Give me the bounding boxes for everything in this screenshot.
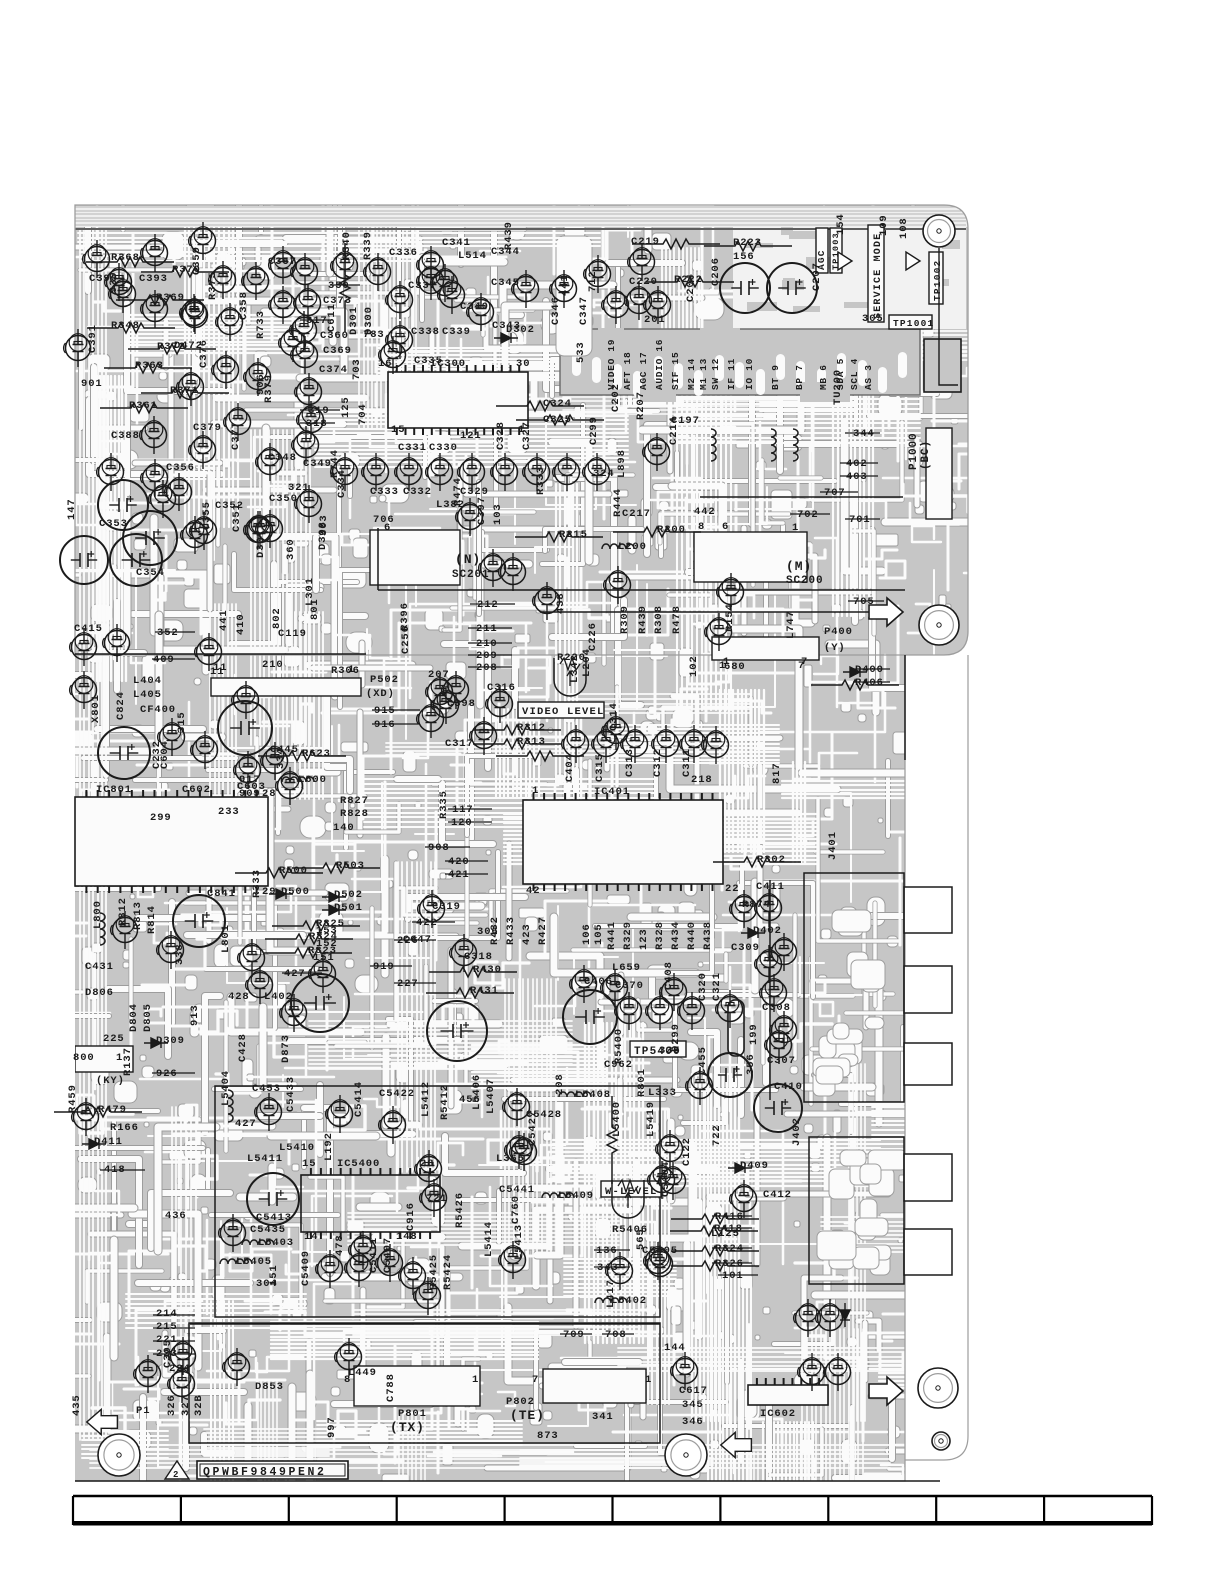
svg-text:J401: J401 — [827, 831, 839, 860]
svg-text:C351: C351 — [231, 503, 243, 532]
svg-text:C315: C315 — [594, 753, 606, 782]
svg-text:L342: L342 — [569, 654, 581, 683]
svg-text:908: 908 — [428, 842, 450, 854]
svg-text:C331: C331 — [398, 442, 427, 454]
svg-text:C335: C335 — [414, 355, 443, 367]
svg-text:C788: C788 — [385, 1373, 397, 1402]
svg-text:L747: L747 — [785, 610, 797, 639]
svg-text:TP1001: TP1001 — [893, 318, 934, 329]
svg-text:SDA 5: SDA 5 — [835, 358, 846, 390]
svg-text:C311: C311 — [681, 748, 693, 777]
svg-text:346: 346 — [682, 1416, 704, 1428]
svg-text:R333: R333 — [535, 466, 547, 495]
svg-text:L5419: L5419 — [645, 1101, 657, 1137]
svg-text:324: 324 — [593, 468, 615, 480]
svg-text:R733: R733 — [255, 310, 267, 339]
svg-text:C334: C334 — [336, 469, 348, 498]
svg-text:212: 212 — [477, 599, 499, 611]
svg-text:344: 344 — [853, 428, 875, 440]
svg-text:R308: R308 — [653, 605, 665, 634]
svg-text:C408: C408 — [663, 961, 675, 990]
svg-text:1: 1 — [645, 1374, 652, 1386]
svg-text:D301: D301 — [348, 306, 360, 335]
svg-text:R369: R369 — [156, 292, 185, 304]
svg-text:C841: C841 — [207, 888, 236, 900]
svg-text:P1: P1 — [136, 1405, 150, 1417]
svg-text:C391: C391 — [87, 324, 99, 353]
svg-text:D307: D307 — [255, 529, 267, 558]
svg-text:R439: R439 — [637, 605, 649, 634]
svg-text:R207: R207 — [635, 391, 647, 420]
svg-text:R5400: R5400 — [613, 1028, 625, 1064]
svg-text:410: 410 — [235, 613, 247, 635]
svg-text:721: 721 — [426, 1193, 448, 1205]
svg-text:QPWBF9849PEN2: QPWBF9849PEN2 — [203, 1466, 327, 1479]
svg-text:C339: C339 — [442, 326, 471, 338]
svg-text:D501: D501 — [334, 902, 363, 914]
svg-text:117: 117 — [452, 804, 474, 816]
svg-text:C5409: C5409 — [300, 1250, 312, 1286]
svg-text:C410: C410 — [774, 1081, 803, 1093]
svg-text:1: 1 — [532, 785, 539, 797]
svg-text:D309: D309 — [156, 1035, 185, 1047]
svg-text:C204: C204 — [685, 273, 697, 302]
svg-text:C338: C338 — [411, 326, 440, 338]
svg-text:R432: R432 — [489, 916, 501, 945]
svg-text:136: 136 — [596, 1245, 618, 1257]
svg-text:435: 435 — [71, 1394, 83, 1416]
svg-text:802: 802 — [271, 607, 283, 629]
svg-text:C336: C336 — [389, 247, 418, 259]
svg-text:C604: C604 — [159, 740, 171, 769]
svg-text:C5405: C5405 — [642, 1245, 678, 1257]
svg-text:R459: R459 — [67, 1084, 79, 1113]
svg-text:C415: C415 — [74, 623, 103, 635]
svg-text:C760: C760 — [510, 1195, 522, 1224]
svg-text:VIDEO 19: VIDEO 19 — [606, 339, 617, 390]
svg-text:R329: R329 — [622, 921, 634, 950]
svg-text:L5405: L5405 — [236, 1256, 272, 1268]
svg-text:L5404: L5404 — [220, 1070, 232, 1106]
svg-text:11: 11 — [213, 662, 227, 674]
svg-text:C5422: C5422 — [379, 1088, 415, 1100]
svg-text:M1 13: M1 13 — [698, 358, 709, 390]
svg-text:103: 103 — [492, 503, 504, 525]
svg-text:1: 1 — [792, 522, 799, 534]
svg-text:R440: R440 — [686, 921, 698, 950]
svg-text:210: 210 — [476, 638, 498, 650]
svg-text:C328: C328 — [495, 421, 507, 450]
svg-text:C359: C359 — [191, 246, 203, 275]
svg-text:334: 334 — [275, 747, 287, 769]
svg-text:915: 915 — [374, 705, 396, 717]
svg-text:P802: P802 — [506, 1396, 535, 1408]
svg-text:317: 317 — [306, 315, 328, 327]
svg-text:L449: L449 — [348, 1367, 377, 1379]
svg-text:X801: X801 — [90, 694, 102, 723]
svg-text:C397: C397 — [476, 496, 488, 525]
svg-text:C320: C320 — [697, 972, 709, 1001]
svg-text:R379: R379 — [263, 374, 275, 403]
svg-text:873: 873 — [537, 1430, 559, 1442]
svg-text:707: 707 — [824, 487, 846, 499]
svg-text:L800: L800 — [92, 900, 104, 929]
svg-text:MB 6: MB 6 — [818, 364, 829, 390]
svg-text:211: 211 — [476, 623, 498, 635]
svg-text:SIF 15: SIF 15 — [670, 352, 681, 390]
svg-text:R813: R813 — [132, 901, 144, 930]
svg-text:IC401: IC401 — [594, 786, 630, 798]
svg-text:C404: C404 — [564, 753, 576, 782]
svg-text:L5409: L5409 — [558, 1190, 594, 1202]
svg-text:C206: C206 — [710, 257, 722, 286]
svg-text:428: 428 — [228, 991, 250, 1003]
svg-text:926: 926 — [156, 1068, 178, 1080]
svg-text:R828: R828 — [340, 808, 369, 820]
svg-text:D400: D400 — [855, 664, 884, 676]
svg-text:42: 42 — [526, 885, 540, 897]
svg-text:442: 442 — [694, 506, 716, 518]
svg-text:22: 22 — [725, 883, 739, 895]
svg-text:C308: C308 — [762, 1002, 791, 1014]
svg-text:C337: C337 — [408, 280, 437, 292]
svg-text:C313: C313 — [624, 748, 636, 777]
svg-text:360: 360 — [285, 538, 297, 560]
svg-text:L404: L404 — [133, 675, 162, 687]
svg-text:(Y): (Y) — [824, 642, 846, 654]
svg-text:R339: R339 — [362, 231, 374, 260]
svg-text:356: 356 — [745, 1053, 757, 1075]
svg-text:C220: C220 — [629, 276, 658, 288]
svg-text:565: 565 — [635, 1228, 647, 1250]
svg-text:28: 28 — [262, 788, 276, 800]
svg-text:402: 402 — [846, 458, 868, 470]
svg-text:D853: D853 — [255, 1381, 284, 1393]
svg-text:423: 423 — [521, 923, 533, 945]
svg-text:(TE): (TE) — [510, 1408, 545, 1423]
svg-text:L5412: L5412 — [420, 1081, 432, 1117]
svg-text:R814: R814 — [146, 905, 158, 934]
svg-text:TP1002: TP1002 — [932, 260, 943, 301]
svg-text:D299: D299 — [670, 1023, 682, 1052]
svg-text:(XD): (XD) — [366, 688, 395, 700]
svg-text:327: 327 — [180, 1394, 192, 1416]
svg-text:C309: C309 — [731, 942, 760, 954]
svg-text:C611: C611 — [326, 303, 338, 332]
svg-text:C369: C369 — [323, 345, 352, 357]
svg-text:P1000: P1000 — [908, 432, 920, 470]
svg-text:D806: D806 — [85, 987, 114, 999]
svg-text:R441: R441 — [606, 921, 618, 950]
svg-text:305: 305 — [862, 313, 884, 325]
svg-text:C357: C357 — [268, 256, 297, 268]
svg-text:R478: R478 — [671, 605, 683, 634]
svg-text:R215: R215 — [559, 529, 588, 541]
svg-text:345: 345 — [682, 1399, 704, 1411]
svg-text:SCL 4: SCL 4 — [849, 358, 860, 390]
svg-text:R5425: R5425 — [428, 1254, 440, 1290]
svg-text:L192: L192 — [323, 1132, 335, 1161]
svg-text:148: 148 — [396, 1231, 418, 1243]
svg-text:478: 478 — [334, 1234, 346, 1256]
svg-text:C333: C333 — [370, 486, 399, 498]
svg-text:C307: C307 — [767, 1055, 796, 1067]
svg-text:AFT 18: AFT 18 — [622, 352, 633, 390]
svg-text:R302: R302 — [757, 854, 786, 866]
svg-text:L898: L898 — [616, 449, 628, 478]
svg-text:218: 218 — [691, 774, 713, 786]
svg-text:L333: L333 — [648, 1087, 677, 1099]
svg-text:422: 422 — [416, 917, 438, 929]
svg-text:C370: C370 — [615, 980, 644, 992]
svg-text:299: 299 — [150, 812, 172, 824]
svg-text:C916: C916 — [405, 1202, 417, 1231]
svg-text:C348: C348 — [268, 452, 297, 464]
svg-text:C299: C299 — [588, 416, 600, 445]
svg-text:338: 338 — [174, 943, 186, 965]
svg-text:R438: R438 — [702, 921, 714, 950]
svg-text:R434: R434 — [670, 921, 682, 950]
svg-text:P801: P801 — [398, 1408, 427, 1420]
svg-text:C319: C319 — [432, 901, 461, 913]
svg-text:R348: R348 — [111, 320, 140, 332]
svg-text:C428: C428 — [237, 1033, 249, 1062]
svg-text:C379: C379 — [193, 422, 222, 434]
svg-text:326: 326 — [166, 1394, 178, 1416]
svg-text:L5408: L5408 — [575, 1089, 611, 1101]
svg-text:144: 144 — [664, 1342, 686, 1354]
svg-text:(N): (N) — [455, 552, 481, 567]
svg-text:427: 427 — [284, 968, 306, 980]
svg-text:L301: L301 — [304, 577, 316, 606]
svg-text:D804: D804 — [128, 1003, 140, 1032]
svg-text:C327: C327 — [521, 421, 533, 450]
svg-text:704: 704 — [357, 403, 369, 425]
svg-text:123: 123 — [638, 928, 650, 950]
svg-text:441: 441 — [218, 609, 230, 631]
svg-text:120: 120 — [451, 817, 473, 829]
svg-text:352: 352 — [157, 627, 179, 639]
svg-text:D873: D873 — [280, 1034, 292, 1063]
svg-text:916: 916 — [374, 719, 396, 731]
svg-text:319: 319 — [308, 405, 330, 417]
svg-text:R333: R333 — [251, 869, 263, 898]
svg-text:C347: C347 — [578, 296, 590, 325]
svg-text:SW 12: SW 12 — [710, 358, 721, 390]
svg-text:125: 125 — [340, 396, 352, 418]
svg-text:C341: C341 — [442, 237, 471, 249]
svg-text:R368: R368 — [111, 252, 140, 264]
svg-text:W-LEVEL: W-LEVEL — [605, 1186, 658, 1198]
svg-text:421: 421 — [448, 869, 470, 881]
svg-text:BT 9: BT 9 — [770, 364, 781, 390]
svg-text:C5411: C5411 — [368, 1237, 380, 1273]
svg-text:AS 3: AS 3 — [863, 364, 874, 390]
svg-text:102: 102 — [688, 655, 700, 677]
svg-text:R137: R137 — [122, 1047, 134, 1076]
svg-text:L204: L204 — [581, 648, 593, 677]
svg-text:7: 7 — [532, 1374, 539, 1386]
svg-text:C316: C316 — [487, 682, 516, 694]
svg-text:156: 156 — [733, 251, 755, 263]
svg-text:15: 15 — [302, 1158, 316, 1170]
svg-text:703: 703 — [351, 358, 363, 380]
svg-text:C406: C406 — [584, 976, 613, 988]
svg-text:P400: P400 — [824, 626, 853, 638]
svg-text:BP 7: BP 7 — [794, 364, 805, 390]
svg-text:L200: L200 — [618, 541, 647, 553]
svg-text:109: 109 — [878, 214, 890, 236]
svg-text:151: 151 — [313, 952, 335, 964]
svg-text:C5414: C5414 — [353, 1081, 365, 1117]
svg-text:R396: R396 — [399, 602, 411, 631]
svg-text:709: 709 — [563, 1329, 585, 1341]
svg-text:R430: R430 — [473, 964, 502, 976]
svg-text:919: 919 — [373, 961, 395, 973]
svg-text:C412: C412 — [763, 1189, 792, 1201]
svg-text:C388: C388 — [111, 430, 140, 442]
svg-text:C431: C431 — [85, 961, 114, 973]
svg-text:VIDEO LEVEL: VIDEO LEVEL — [522, 706, 605, 718]
svg-text:IC5400: IC5400 — [337, 1158, 380, 1170]
svg-text:L801: L801 — [220, 924, 232, 953]
svg-text:L125: L125 — [711, 1228, 740, 1240]
svg-text:P502: P502 — [370, 674, 399, 686]
svg-text:L5413: L5413 — [513, 1224, 525, 1260]
svg-text:R623: R623 — [302, 748, 331, 760]
svg-text:C332: C332 — [403, 486, 432, 498]
svg-text:R361: R361 — [129, 400, 158, 412]
svg-text:C5404: C5404 — [660, 1161, 672, 1197]
svg-text:C455: C455 — [697, 1046, 709, 1075]
svg-text:C314: C314 — [608, 702, 620, 731]
svg-text:D402: D402 — [753, 925, 782, 937]
svg-text:D500: D500 — [281, 886, 310, 898]
svg-text:208: 208 — [554, 1073, 566, 1095]
svg-text:R827: R827 — [340, 795, 369, 807]
svg-text:D409: D409 — [740, 1160, 769, 1172]
svg-text:215: 215 — [156, 1321, 178, 1333]
svg-text:C5441: C5441 — [499, 1184, 535, 1196]
svg-text:315: 315 — [176, 711, 188, 733]
svg-text:C345: C345 — [491, 277, 520, 289]
svg-text:R371: R371 — [170, 385, 199, 397]
svg-text:C330: C330 — [429, 442, 458, 454]
svg-text:D302: D302 — [506, 324, 535, 336]
svg-text:441: 441 — [559, 274, 571, 296]
svg-text:IO 10: IO 10 — [744, 358, 755, 390]
svg-text:L402: L402 — [264, 991, 293, 1003]
svg-text:R328: R328 — [654, 921, 666, 950]
svg-text:32B: 32B — [193, 1394, 205, 1416]
svg-text:722: 722 — [711, 1124, 723, 1146]
svg-text:L5407: L5407 — [485, 1078, 497, 1114]
svg-text:C226: C226 — [587, 622, 599, 651]
svg-text:420: 420 — [448, 856, 470, 868]
svg-text:C122: C122 — [681, 1137, 693, 1166]
svg-text:227: 227 — [397, 978, 419, 990]
svg-text:L5403: L5403 — [258, 1237, 294, 1249]
svg-text:R363: R363 — [135, 360, 164, 372]
svg-text:147: 147 — [66, 498, 78, 520]
svg-text:C617: C617 — [679, 1385, 708, 1397]
svg-text:R312: R312 — [517, 722, 546, 734]
svg-text:427: 427 — [235, 1118, 257, 1130]
svg-text:R444: R444 — [612, 488, 624, 517]
svg-text:201: 201 — [644, 314, 666, 326]
svg-text:C355: C355 — [201, 501, 213, 530]
svg-text:AUDIO 16: AUDIO 16 — [654, 339, 665, 390]
svg-text:R433: R433 — [505, 916, 517, 945]
svg-text:C824: C824 — [115, 691, 127, 720]
svg-text:C5407: C5407 — [382, 1237, 394, 1273]
svg-text:C346: C346 — [550, 296, 562, 325]
svg-text:R200: R200 — [657, 524, 686, 536]
svg-text:R306: R306 — [331, 665, 360, 677]
svg-text:C207: C207 — [811, 262, 823, 291]
svg-text:680: 680 — [724, 661, 746, 673]
svg-text:800: 800 — [73, 1052, 95, 1064]
svg-text:C453: C453 — [252, 1083, 281, 1095]
svg-text:R801: R801 — [636, 1068, 648, 1097]
svg-text:R431: R431 — [470, 985, 499, 997]
svg-text:C325: C325 — [543, 414, 572, 426]
svg-text:C219: C219 — [631, 236, 660, 248]
svg-text:AGC 17: AGC 17 — [638, 352, 649, 390]
svg-text:29: 29 — [262, 886, 276, 898]
svg-text:R5426: R5426 — [454, 1192, 466, 1228]
svg-text:705: 705 — [853, 596, 875, 608]
svg-text:D502: D502 — [334, 889, 363, 901]
svg-text:15: 15 — [391, 424, 405, 436]
svg-text:350: 350 — [328, 280, 350, 292]
svg-text:343: 343 — [597, 1262, 619, 1274]
svg-text:C356: C356 — [166, 462, 195, 474]
svg-text:IC602: IC602 — [760, 1408, 796, 1420]
svg-text:L5411: L5411 — [247, 1153, 283, 1165]
svg-text:R479: R479 — [98, 1104, 127, 1116]
svg-text:(M): (M) — [786, 559, 812, 574]
svg-text:C374: C374 — [319, 364, 348, 376]
svg-text:C321: C321 — [711, 972, 723, 1001]
svg-text:SC200: SC200 — [786, 575, 824, 587]
svg-text:C217: C217 — [622, 508, 651, 520]
svg-text:C393: C393 — [139, 273, 168, 285]
svg-text:R812: R812 — [117, 897, 129, 926]
svg-text:L5410: L5410 — [279, 1142, 315, 1154]
svg-text:C214: C214 — [668, 416, 680, 445]
svg-text:C358: C358 — [238, 291, 250, 320]
svg-text:121: 121 — [460, 430, 482, 442]
svg-text:L659: L659 — [612, 962, 641, 974]
svg-text:208: 208 — [476, 662, 498, 674]
svg-text:L514: L514 — [458, 250, 487, 262]
svg-text:403: 403 — [846, 471, 868, 483]
svg-text:D411: D411 — [94, 1136, 123, 1148]
svg-text:L5414: L5414 — [483, 1221, 495, 1257]
svg-text:C377: C377 — [230, 421, 242, 450]
svg-text:C353: C353 — [99, 518, 128, 530]
svg-text:R326: R326 — [715, 1258, 744, 1270]
svg-text:R474: R474 — [452, 477, 464, 506]
svg-text:151: 151 — [268, 1264, 280, 1286]
svg-text:409: 409 — [153, 654, 175, 666]
svg-text:C398: C398 — [447, 698, 476, 710]
svg-text:708: 708 — [605, 1329, 627, 1341]
svg-text:SERVICE MODE: SERVICE MODE — [873, 233, 884, 319]
svg-text:R5424: R5424 — [442, 1254, 454, 1290]
svg-text:(BC): (BC) — [920, 440, 932, 470]
